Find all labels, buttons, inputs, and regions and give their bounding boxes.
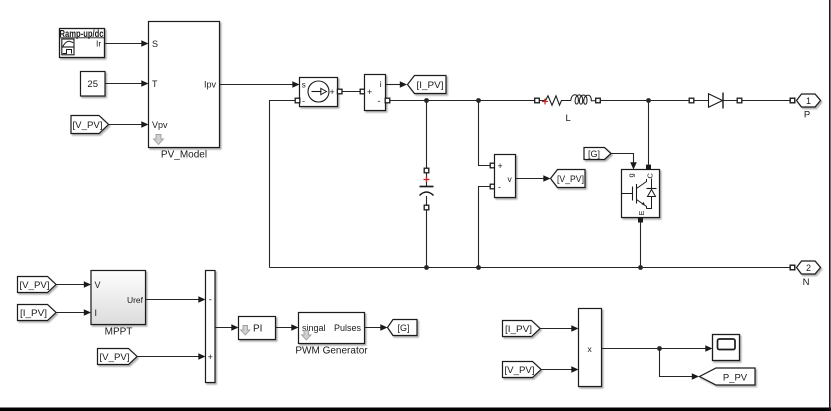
port square: diode anode xyxy=(689,98,694,103)
wire IGBT emitter to bottom rail xyxy=(640,223,642,268)
svg-text:PI: PI xyxy=(253,324,262,335)
svg-text:S: S xyxy=(152,39,158,49)
svg-text:-: - xyxy=(498,182,501,192)
svg-text:-: - xyxy=(378,96,381,106)
wire voltmeter minus branch xyxy=(479,187,491,268)
from tag V_PV (to product) xyxy=(503,362,542,378)
svg-text:+: + xyxy=(498,161,503,171)
svg-text:T: T xyxy=(152,79,158,89)
svg-text:s: s xyxy=(302,81,306,90)
wire capacitor top lead xyxy=(426,101,428,169)
wire branch to goto P_PV xyxy=(660,349,700,380)
wire 25 to PV_Model T input xyxy=(105,80,149,87)
subsystem MPPT xyxy=(91,271,146,338)
wire Ir output to PV_Model S input xyxy=(105,40,149,47)
wire product to scope xyxy=(602,345,713,352)
wire inductor to diode xyxy=(600,100,708,102)
port square: inductor left xyxy=(535,98,540,103)
svg-text:E: E xyxy=(637,210,646,215)
wire source minus return (left down to bottom rail) xyxy=(270,101,296,268)
port square: voltmeter plus xyxy=(490,163,495,168)
wire Ipv output to current source s input xyxy=(220,81,300,88)
svg-text:[V_PV]: [V_PV] xyxy=(100,352,130,363)
outport 1 P xyxy=(797,94,821,121)
wire G tag to IGBT gate xyxy=(611,154,637,170)
from tag V_PV (to MPPT V) xyxy=(18,277,57,293)
wire V_PV tag to product input 2 xyxy=(541,366,579,373)
svg-text:[I_PV]: [I_PV] xyxy=(20,308,47,319)
svg-text:25: 25 xyxy=(87,79,98,90)
svg-text:[I_PV]: [I_PV] xyxy=(417,80,444,91)
voltage measurement block xyxy=(495,155,516,198)
svg-text:2: 2 xyxy=(806,263,811,273)
svg-text:Uref: Uref xyxy=(127,295,144,305)
from tag V_PV (to Vpv input) xyxy=(71,116,109,134)
svg-text:[V_PV]: [V_PV] xyxy=(73,120,103,131)
svg-text:L: L xyxy=(566,113,571,124)
wire bottom rail xyxy=(270,267,791,269)
outport 2 N xyxy=(797,261,821,288)
PI controller block xyxy=(239,317,276,340)
svg-text:P: P xyxy=(804,110,810,121)
wire V_PV tag to sum plus xyxy=(137,353,206,360)
scope block xyxy=(713,335,740,361)
junction bottom rail / capacitor xyxy=(424,265,429,270)
goto tag V_PV (voltmeter) xyxy=(551,170,586,188)
wire i output to goto I_PV xyxy=(386,81,408,88)
from tag I_PV (to MPPT I) xyxy=(18,305,57,321)
port square: capacitor bottom xyxy=(424,205,429,210)
junction bottom rail / emitter xyxy=(638,265,643,270)
capacitor C (polarized) xyxy=(420,173,434,205)
svg-text:1: 1 xyxy=(806,96,811,106)
svg-text:N: N xyxy=(803,277,810,288)
junction top rail / voltmeter branch xyxy=(476,98,481,103)
window bottom border xyxy=(0,408,831,411)
wire IGBT collector (top rail down) xyxy=(648,101,650,165)
wire Uref to sum minus xyxy=(146,296,206,303)
wire capacitor bottom lead xyxy=(426,210,428,268)
svg-text:-: - xyxy=(209,295,212,305)
wire v output to goto V_PV xyxy=(516,175,551,182)
window right border xyxy=(829,0,831,411)
svg-text:[V_PV]: [V_PV] xyxy=(505,365,535,376)
port square: outport P connection xyxy=(790,98,795,103)
svg-text:PWM Generator: PWM Generator xyxy=(295,346,368,357)
wire PI to PWM Generator xyxy=(276,324,299,331)
PWM Generator block xyxy=(295,313,368,357)
from tag I_PV (to product) xyxy=(503,321,541,337)
series RL branch L xyxy=(542,95,595,124)
svg-text:Vpv: Vpv xyxy=(152,120,168,130)
svg-text:[V_PV]: [V_PV] xyxy=(557,174,584,185)
svg-text:Pulses: Pulses xyxy=(334,323,362,333)
goto tag G xyxy=(388,320,418,336)
svg-text:MPPT: MPPT xyxy=(105,327,133,338)
junction bottom rail / voltmeter xyxy=(476,265,481,270)
port square: inductor right xyxy=(596,98,601,103)
port square: source plus xyxy=(337,89,342,94)
wire I_PV tag to product input 1 xyxy=(540,325,579,332)
svg-text:I: I xyxy=(95,308,98,318)
diode D xyxy=(709,93,791,109)
svg-text:i: i xyxy=(380,79,382,89)
signal builder block Ramp-up/dc (Ir source) xyxy=(60,29,105,58)
IGBT block with antiparallel diode xyxy=(622,170,660,218)
port square: voltmeter minus xyxy=(490,184,495,189)
svg-text:+: + xyxy=(330,87,335,97)
svg-text:+: + xyxy=(208,352,213,362)
wire Pulses to goto G xyxy=(365,324,388,331)
svg-text:[I_PV]: [I_PV] xyxy=(505,324,532,335)
svg-text:P_PV: P_PV xyxy=(723,373,748,384)
controlled current source xyxy=(300,78,338,107)
wire source + to ammeter + xyxy=(338,91,365,93)
wire V_PV tag to MPPT V xyxy=(56,281,91,288)
svg-text:Ir: Ir xyxy=(96,39,101,49)
port square: IGBT emitter (filled) xyxy=(638,218,643,223)
port square: ammeter plus xyxy=(360,89,365,94)
wire V_PV tag to Vpv input xyxy=(109,121,149,128)
product block x xyxy=(579,309,602,387)
svg-text:Ipv: Ipv xyxy=(204,80,217,90)
svg-text:PV_Model: PV_Model xyxy=(161,150,207,161)
svg-text:V: V xyxy=(95,280,101,290)
port square: diode cathode xyxy=(737,98,742,103)
junction top rail / capacitor branch xyxy=(424,98,429,103)
subsystem PV_Model xyxy=(149,22,220,161)
svg-text:+: + xyxy=(367,87,372,97)
port square: capacitor top xyxy=(424,168,429,173)
wire sum to PI xyxy=(215,324,239,331)
junction product output branch xyxy=(657,346,662,351)
from tag V_PV (to sum plus) xyxy=(98,349,138,365)
svg-text:[V_PV]: [V_PV] xyxy=(20,280,50,291)
wire top rail: ammeter minus to inductor xyxy=(390,100,546,102)
svg-text:[G]: [G] xyxy=(398,323,410,333)
svg-text:C: C xyxy=(646,173,655,179)
from tag G (gate) xyxy=(584,148,611,160)
svg-text:[G]: [G] xyxy=(588,149,600,159)
current measurement block xyxy=(365,75,386,111)
port square: IGBT collector (filled) xyxy=(646,165,651,170)
constant block 25 xyxy=(81,72,106,97)
goto tag I_PV xyxy=(408,76,447,94)
wire voltmeter plus branch xyxy=(479,101,491,166)
port square: source minus (left) xyxy=(295,98,300,103)
svg-text:g: g xyxy=(627,173,636,177)
port square: ammeter minus (right) xyxy=(385,98,390,103)
sum block (+/-) xyxy=(206,271,216,383)
junction top rail / IGBT collector xyxy=(646,98,651,103)
port square: outport N connection xyxy=(790,265,795,270)
goto tag P_PV xyxy=(700,368,756,385)
wire I_PV tag to MPPT I xyxy=(56,309,91,316)
svg-text:-: - xyxy=(302,96,305,106)
